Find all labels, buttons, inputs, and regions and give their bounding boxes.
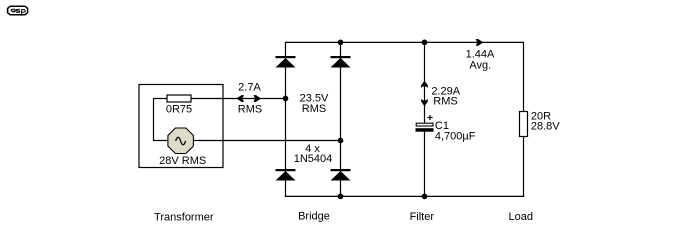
svg-text:Load: Load (509, 211, 533, 223)
svg-text:RMS: RMS (302, 103, 326, 115)
svg-text:Avg.: Avg. (469, 59, 491, 71)
wire: right bridge column (340, 42, 342, 196)
transformer box (139, 85, 223, 168)
svg-text:RMS: RMS (433, 96, 457, 108)
current arrow 2.29A (double headed vertical) (421, 81, 428, 107)
node: bottom rail at filter column (422, 194, 428, 200)
diode D2 (top right) (331, 56, 351, 68)
wire: lower AC tap (source to bridge) (193, 140, 341, 142)
svg-text:Bridge: Bridge (298, 211, 330, 223)
wire: upper AC tap (resistor to bridge) (191, 98, 286, 100)
svg-text:2.7A: 2.7A (238, 82, 261, 94)
wire: bottom rail (DC-) (285, 195, 524, 197)
wire: source left lead (153, 140, 169, 142)
wire: filter column upper (424, 42, 426, 124)
svg-text:1N5404: 1N5404 (294, 153, 333, 165)
node: top rail at right bridge column (338, 40, 344, 46)
AC source (sine generator) (168, 128, 194, 154)
current arrow 1.44A (476, 39, 484, 46)
current arrow 2.7A (double headed) (237, 95, 262, 102)
wire: top rail (DC+) (285, 41, 524, 43)
node: upper AC tap junction (283, 96, 289, 102)
wire: resistor left lead (153, 98, 167, 100)
node: bottom rail at right bridge column (338, 194, 344, 200)
svg-text:RMS: RMS (238, 104, 262, 116)
svg-text:28V RMS: 28V RMS (159, 155, 206, 167)
node: lower AC tap junction (338, 138, 344, 144)
resistor load 20R body (520, 112, 528, 137)
wire: filter column lower (424, 132, 426, 197)
node: top rail at filter column (422, 40, 428, 46)
diode D1 (top left) (276, 56, 296, 68)
svg-text:0R75: 0R75 (166, 104, 192, 116)
capacitor C1 (416, 115, 434, 132)
wire: left bridge column (285, 42, 287, 196)
resistor 0R75 body (167, 95, 191, 102)
diode D3 (bottom left) (276, 169, 296, 181)
ESP logo (8, 6, 28, 16)
svg-text:28.8V: 28.8V (531, 121, 560, 133)
svg-text:Transformer: Transformer (154, 212, 214, 224)
diode D4 (bottom right) (331, 169, 351, 181)
svg-text:4,700µF: 4,700µF (435, 131, 476, 143)
wire: load column (523, 42, 525, 196)
wire: left riser inside transformer (153, 99, 155, 141)
svg-text:Filter: Filter (410, 211, 435, 223)
